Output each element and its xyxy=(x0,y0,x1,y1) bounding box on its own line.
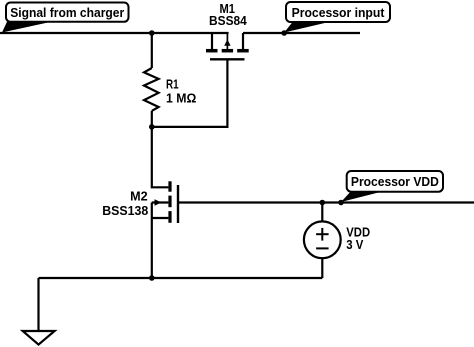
wire ground rail xyxy=(39,277,323,279)
wire M1 gate to R1 bottom node xyxy=(152,59,228,127)
callout Processor input xyxy=(284,2,390,33)
svg-text:R1: R1 xyxy=(166,78,179,92)
wire R1 bottom to M2 drain xyxy=(152,127,169,187)
label M1 xyxy=(219,2,235,16)
svg-text:Processor VDD: Processor VDD xyxy=(351,174,439,189)
svg-text:Signal from charger: Signal from charger xyxy=(10,5,124,20)
label M2 xyxy=(130,190,148,204)
svg-text:1 MΩ: 1 MΩ xyxy=(166,92,196,106)
label BSS138 xyxy=(102,204,148,218)
svg-text:M2: M2 xyxy=(130,190,148,204)
label 1 MΩ xyxy=(166,92,196,106)
callout Signal from charger xyxy=(2,3,129,33)
svg-text:Processor input: Processor input xyxy=(292,5,385,20)
voltage source VDD 3V xyxy=(304,203,341,279)
node ground rail junction xyxy=(149,275,155,281)
wire top rail left segment (charger to M1 source and bulk) xyxy=(0,32,229,34)
resistor R1 xyxy=(144,33,159,127)
svg-text:BSS138: BSS138 xyxy=(102,204,148,218)
node processor input junction xyxy=(281,30,287,36)
ground xyxy=(23,278,55,345)
node Processor VDD junction xyxy=(338,200,344,206)
callout Processor VDD xyxy=(341,171,443,202)
wire top rail right segment (M1 drain to processor input) xyxy=(243,32,360,34)
svg-text:BSS84: BSS84 xyxy=(209,14,247,28)
node R1 top junction xyxy=(149,30,155,36)
transistor M2 BSS138 (NMOS, rotated) xyxy=(152,181,178,223)
svg-text:3 V: 3 V xyxy=(346,238,364,252)
label VDD xyxy=(346,226,370,240)
transistor M1 BSS84 (PMOS, drawn inverted) xyxy=(206,33,249,59)
wire M2 gate to VDD rail (Processor VDD) xyxy=(178,201,474,203)
node R1 bottom junction xyxy=(149,124,155,130)
wire M2 source and bulk down to ground rail xyxy=(151,203,153,279)
node VDD source top junction xyxy=(320,200,326,206)
label BSS84 xyxy=(209,14,247,28)
label R1 xyxy=(166,78,179,92)
label 3 V xyxy=(346,238,364,252)
